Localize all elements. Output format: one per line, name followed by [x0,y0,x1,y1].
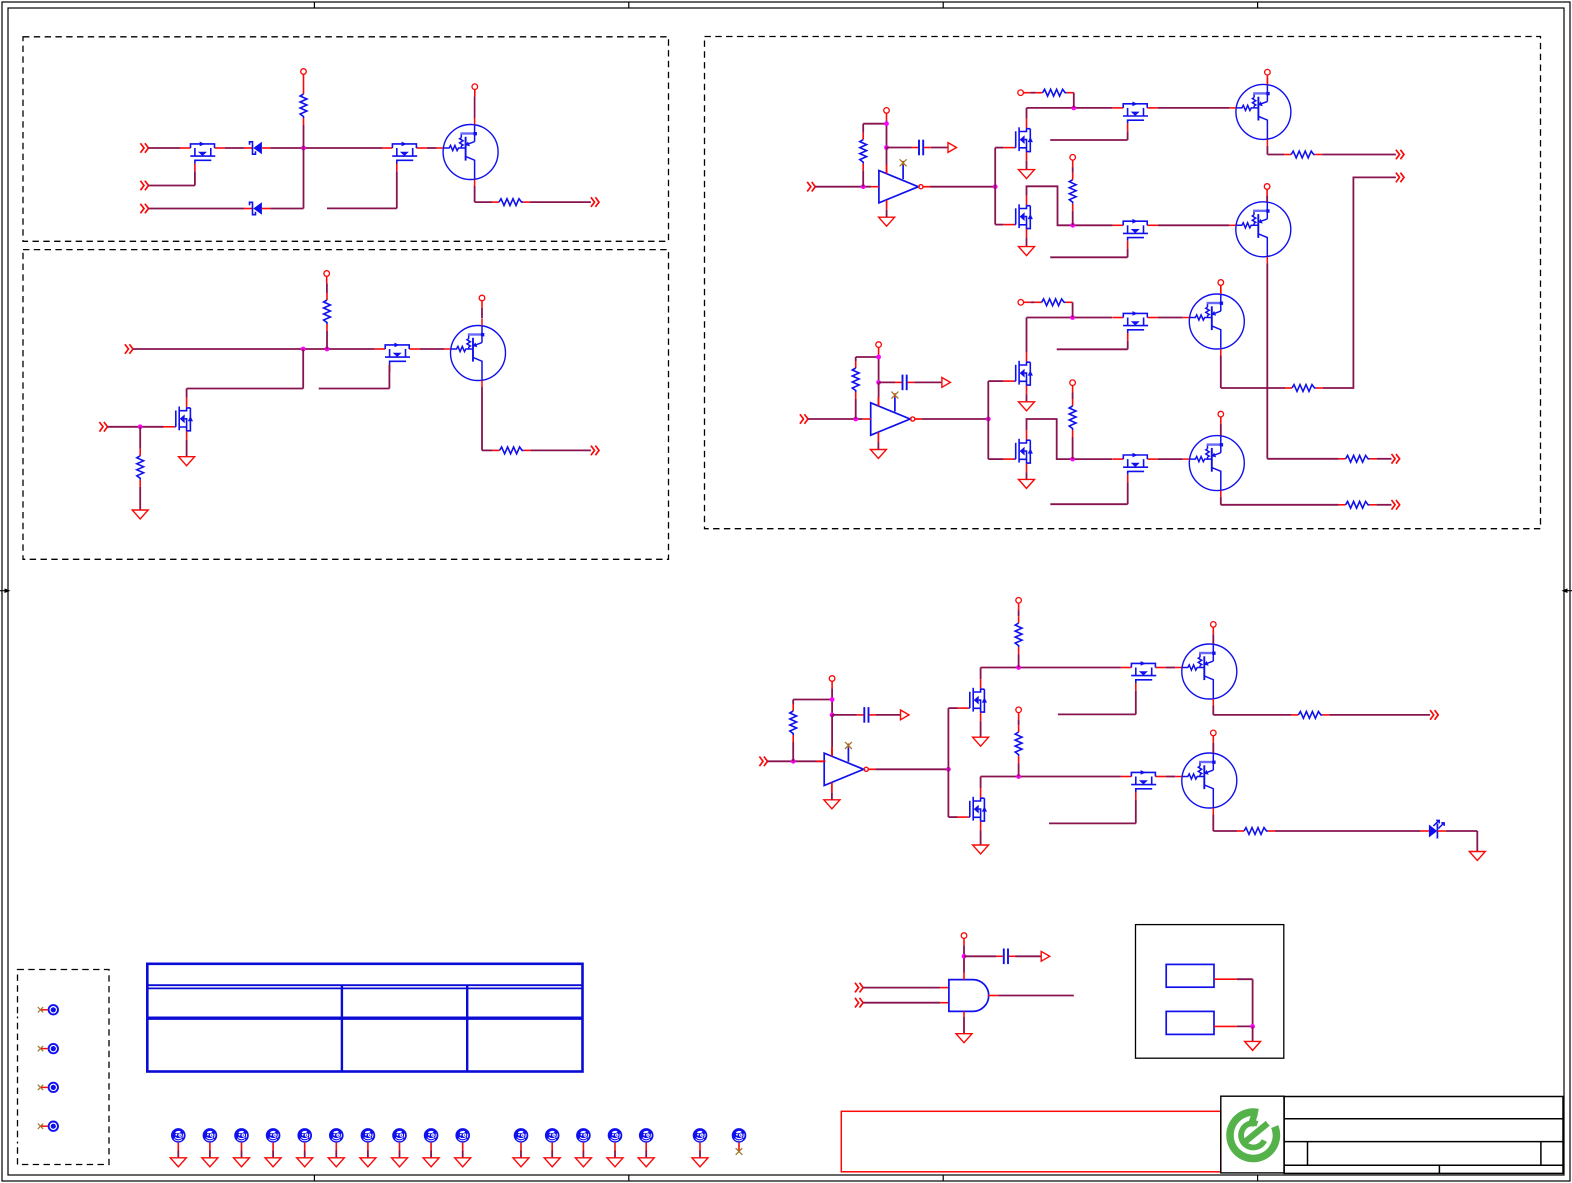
power pin P14 [1218,411,1224,417]
wire [427,147,437,149]
diode D2 [244,202,270,214]
resistor R17 [1015,616,1022,654]
wire [367,1143,369,1151]
port flag OUTF3 [901,710,910,720]
pad TP3 [38,1083,58,1092]
wire to Q19 gate [947,708,949,769]
ground [328,1158,344,1167]
port OUTB1 [1392,454,1400,464]
wire [963,973,965,980]
title block table [1284,1097,1563,1174]
ground [973,737,989,746]
wire [1266,189,1268,196]
resistor R14 [1069,399,1076,437]
wire [876,714,901,716]
wire Q9 collector [1266,146,1268,155]
resistor R16 [790,704,797,742]
power pin P19 [1211,730,1217,736]
table frame [147,964,582,1072]
port INB [800,414,808,424]
ground [1019,170,1035,179]
wire [1026,238,1028,247]
wire [1252,1026,1254,1041]
port OUT1 [591,197,599,207]
wire [1023,92,1030,94]
port flag OUTF2 [942,378,951,388]
resistor R15 [1339,501,1377,508]
buffer U1 [879,159,930,209]
wire Q12 collector long [1266,263,1268,459]
testpoint TP13 [424,1128,439,1143]
testpoint TP7 [234,1128,249,1143]
power pin P3 [324,271,330,277]
wire [768,760,825,762]
power pin P5 [884,108,890,114]
port IN1A [140,143,148,153]
wire to Q13 gate [987,381,989,419]
ground [513,1158,529,1167]
testpoint TP21 [732,1128,747,1143]
wire Q15 collector [1220,356,1222,389]
node junction [876,355,881,360]
wire [304,1143,306,1151]
power pin P10 [876,342,882,348]
wire [1026,161,1028,170]
power pin P13 [1070,380,1076,386]
buffer U2 [871,392,922,442]
mosfet Q20 [1121,661,1166,691]
transistor Q21 (digital) [1175,638,1237,706]
wire [1158,107,1230,109]
wire [980,721,982,737]
node junction [884,121,889,126]
diode D1 [244,142,270,154]
testpoint TP17 [576,1128,591,1143]
node junction [1250,1024,1255,1029]
transistor Q3 (digital) [437,118,499,186]
testpoint TP8 [266,1128,281,1143]
port IN1B [140,181,148,191]
ground [202,1158,218,1167]
wire Q16 drain Z [1027,419,1113,459]
capacitor C2 [895,375,914,391]
mosfet Q19 [958,679,988,721]
wire Q8 gate open [1127,131,1129,140]
resistor R10 [1339,455,1377,462]
wire [792,700,794,705]
wire Q19 drain [980,668,982,680]
wire [963,1011,965,1017]
wire [988,995,998,997]
wire buffer out [930,186,995,188]
port INC [759,757,767,767]
node junction [861,184,866,189]
wire [1220,417,1222,424]
testpoint TP12 [392,1128,407,1143]
power pin P16 [1016,598,1022,604]
ground [575,1158,591,1167]
testpoint TP5 [171,1128,186,1143]
dashed block box 3 (right) [705,37,1541,529]
node junction [946,767,951,772]
wire [1214,978,1237,980]
wire [980,830,982,845]
port OUTA1 [1396,150,1404,160]
wire [149,208,245,210]
wire [1322,154,1396,156]
port IND2 [855,998,863,1008]
wire [177,1143,179,1151]
ground [607,1158,623,1167]
wire [831,715,833,747]
wire Q17 gate open [1127,482,1129,504]
wire Q18 collector [1220,497,1222,505]
power pin P11 [1018,300,1024,306]
wire [420,348,444,350]
ground [879,217,895,226]
wire Q14 gate open [1127,341,1129,350]
capacitor C3 [857,707,876,723]
dashed block box 4 (bottom-left pads) [18,970,110,1165]
testpoint TP9 [297,1128,312,1143]
mosfet Q10 [1003,196,1033,238]
port flag OUTF1 [948,143,957,153]
ground [392,1158,408,1167]
mosfet Q2 [382,142,427,172]
and gate U4 [949,980,989,1012]
wire Q20 gate open [1135,691,1137,715]
ground [179,457,195,466]
frame center arrow right [1562,588,1572,593]
node junction [791,759,796,764]
wire [855,357,857,361]
wire [1446,830,1477,832]
pad TP2 [38,1044,58,1053]
wire [931,147,948,149]
dashed block box 2 (mid-left) [23,250,669,560]
capacitor C4 [996,949,1015,965]
wire [1026,472,1028,479]
wire [1018,763,1020,776]
wire [474,90,476,97]
node junction [138,424,143,429]
wire lower branch [947,769,949,817]
wire [1212,736,1214,743]
ground [1245,1041,1261,1050]
wire supply stub [878,347,880,354]
mosfet Q23 [1121,770,1166,800]
wire [886,148,888,166]
resistor R5 [137,449,144,487]
capacitor C1 [912,140,931,156]
transistor Q15 (digital) [1183,288,1245,356]
resistor R3 [324,293,331,331]
testpoint TP14 [455,1128,470,1143]
wire Q11 gate open [1127,249,1129,258]
ground [132,510,148,519]
node junction [993,184,998,189]
port OUTC1 [1430,710,1438,720]
ground [423,1158,439,1167]
buffer U3 [824,742,875,792]
port OUTB2 [1392,500,1400,510]
resistor R6 [860,133,867,171]
wire [270,147,382,149]
testpoint TP16 [545,1128,560,1143]
wire [1018,603,1020,610]
ground [455,1158,471,1167]
wire [1158,317,1183,319]
wire [877,442,879,450]
ground [824,800,840,809]
pad TP1 [38,1005,58,1014]
mosfet Q16 [1003,430,1033,472]
testpoint TP15 [514,1128,529,1143]
resistor R1 [300,87,307,125]
wire lower branch [987,419,989,459]
wire to Q7 gate [994,148,996,187]
power pin P17 [1211,622,1217,628]
no-connect X [736,1148,743,1155]
resistor R13 [1285,385,1323,392]
frame center arrow left [0,588,11,593]
connector box outline [1136,925,1284,1059]
wire [863,1002,940,1004]
mosfet Q22 [958,788,988,830]
wire supply stub [886,113,888,120]
wire [149,147,181,149]
power pin P12 [1218,280,1224,286]
power pin P4 [479,295,485,301]
node junction [830,713,835,718]
power pin P6 [1018,90,1024,96]
wire [863,987,940,989]
wire to Q6 drain [302,349,304,389]
wire cap branch [887,147,912,149]
wire [1214,1025,1237,1027]
wire [531,449,591,451]
node junction [962,954,967,959]
wire [303,74,305,87]
ground [265,1158,281,1167]
port INA [807,182,815,192]
testpoint TP11 [361,1128,376,1143]
wire [1072,437,1074,459]
wire Q4 gate open [388,365,390,389]
wire [303,125,305,148]
ground [234,1158,250,1167]
wire [530,201,591,203]
ground [956,1034,972,1043]
wire [474,186,476,202]
node junction [1070,457,1075,462]
wire [1072,211,1074,226]
wire [1024,301,1031,303]
wire cap branch [832,714,857,716]
ground [1019,247,1035,256]
port OUT2 [591,446,599,456]
power pin P2 [472,84,478,90]
mosfet Q8 [1113,102,1158,132]
wire [1016,955,1042,957]
wire [614,1143,616,1151]
wire [1026,394,1028,402]
mosfet Q7 [1003,119,1033,161]
wire [481,301,483,308]
pad TP4 [38,1122,58,1131]
wire [1073,92,1075,94]
ground [870,450,886,459]
wire [133,348,375,350]
resistor R4 [493,447,531,454]
wire [1072,386,1074,393]
wire [738,1143,740,1151]
resistor R11 [852,361,859,399]
wire [1166,667,1175,669]
transistor Q5 (digital) [444,319,506,387]
wire lower branch [994,187,996,225]
node junction [1070,315,1075,320]
logo box [1221,1096,1284,1173]
wire [326,276,328,283]
power pin P7 [1265,69,1271,75]
led LED1 [1420,820,1446,838]
mosfet Q1 [180,142,225,172]
node junction [1071,106,1076,111]
wire [186,440,188,457]
wire [1212,627,1214,634]
ground [692,1158,708,1167]
ground [170,1158,186,1167]
node junction [301,347,306,352]
mosfet Q17 [1113,453,1158,483]
transistor Q9 (digital) [1229,78,1291,146]
wire [963,938,965,945]
mosfet Q13 [1003,352,1033,394]
dashed block box 1 (top-left) [23,37,669,242]
ground [1019,479,1035,488]
wire Q10 drain Z [1027,186,1113,225]
power pin P18 [1016,707,1022,713]
wire buffer out [922,418,989,420]
resistor R7 [1036,89,1074,96]
ground [297,1158,313,1167]
wire cap branch [879,381,895,383]
testpoint TP10 [329,1128,344,1143]
wire [792,742,794,761]
wire Q1 gate [149,185,195,187]
wire [462,1143,464,1151]
mosfet Q6 [164,398,194,440]
port IND1 [855,983,863,993]
wire [326,331,328,349]
wire [139,427,141,449]
ground [973,845,989,854]
transistor Q24 (digital) [1175,747,1237,815]
transistor Q12 (digital) [1229,195,1291,263]
wire [520,1143,522,1151]
wire [1377,458,1392,460]
transistor Q18 (digital) [1183,429,1245,497]
wire [1377,504,1392,506]
mosfet Q14 [1113,311,1158,341]
wire Q13 drain [1026,318,1028,353]
wire [914,381,942,383]
logo EasyEDA [1230,1112,1276,1158]
testpoint TP20 [693,1128,708,1143]
wire [481,387,483,450]
resistor R18 [1291,712,1329,719]
frame zone ticks bottom [314,1175,1257,1181]
ground [544,1158,560,1167]
wire Q21 collector [1212,706,1214,715]
node junction [853,417,858,422]
node junction [876,380,881,385]
wire [1018,713,1020,720]
port flag OUTF4 [1041,951,1050,961]
ground [1469,852,1485,861]
wire [831,792,833,800]
frame zone ticks top [314,2,1257,8]
wire [645,1143,647,1151]
testpoint TP18 [608,1128,623,1143]
testpoint TP19 [639,1128,654,1143]
wire [108,426,164,428]
port OUTA2 [1396,173,1404,183]
wire [862,124,864,133]
testpoint TP6 [203,1128,218,1143]
ground [360,1158,376,1167]
wire [862,171,864,187]
mosfet Q11 [1113,219,1158,249]
wire [1275,830,1420,832]
wire [1329,714,1430,716]
wire Q2 gate open [396,171,398,208]
resistor R9 [1069,173,1076,211]
ground [1019,402,1035,411]
node junction [1016,665,1021,670]
wire [855,399,857,419]
wire [270,208,303,210]
red revision box [841,1111,1221,1172]
wire buffer out [875,768,948,770]
power pin P1 [301,69,307,75]
wire cap branch [964,955,996,957]
node junction [1016,774,1021,779]
wire [241,1143,243,1151]
wire supply stub [831,681,833,688]
wire Q7 drain [1026,108,1028,119]
resistor R19 [1015,725,1022,763]
power pin P20 [961,933,967,939]
wire Q23 gate open [1135,800,1137,824]
wire [1266,75,1268,84]
wire [878,382,880,397]
node junction [884,145,889,150]
wire [272,1143,274,1151]
power pin P8 [1070,155,1076,161]
wire [209,1143,211,1151]
wire Q22 drain [980,777,982,789]
wire [1072,302,1074,317]
port IN1C [140,204,148,214]
resistor R12 [1035,299,1073,306]
connector J2 [1166,1011,1214,1034]
node junction [325,347,330,352]
resistor R2 [492,199,530,206]
resistor R8 [1284,151,1322,158]
node junction [986,417,991,422]
